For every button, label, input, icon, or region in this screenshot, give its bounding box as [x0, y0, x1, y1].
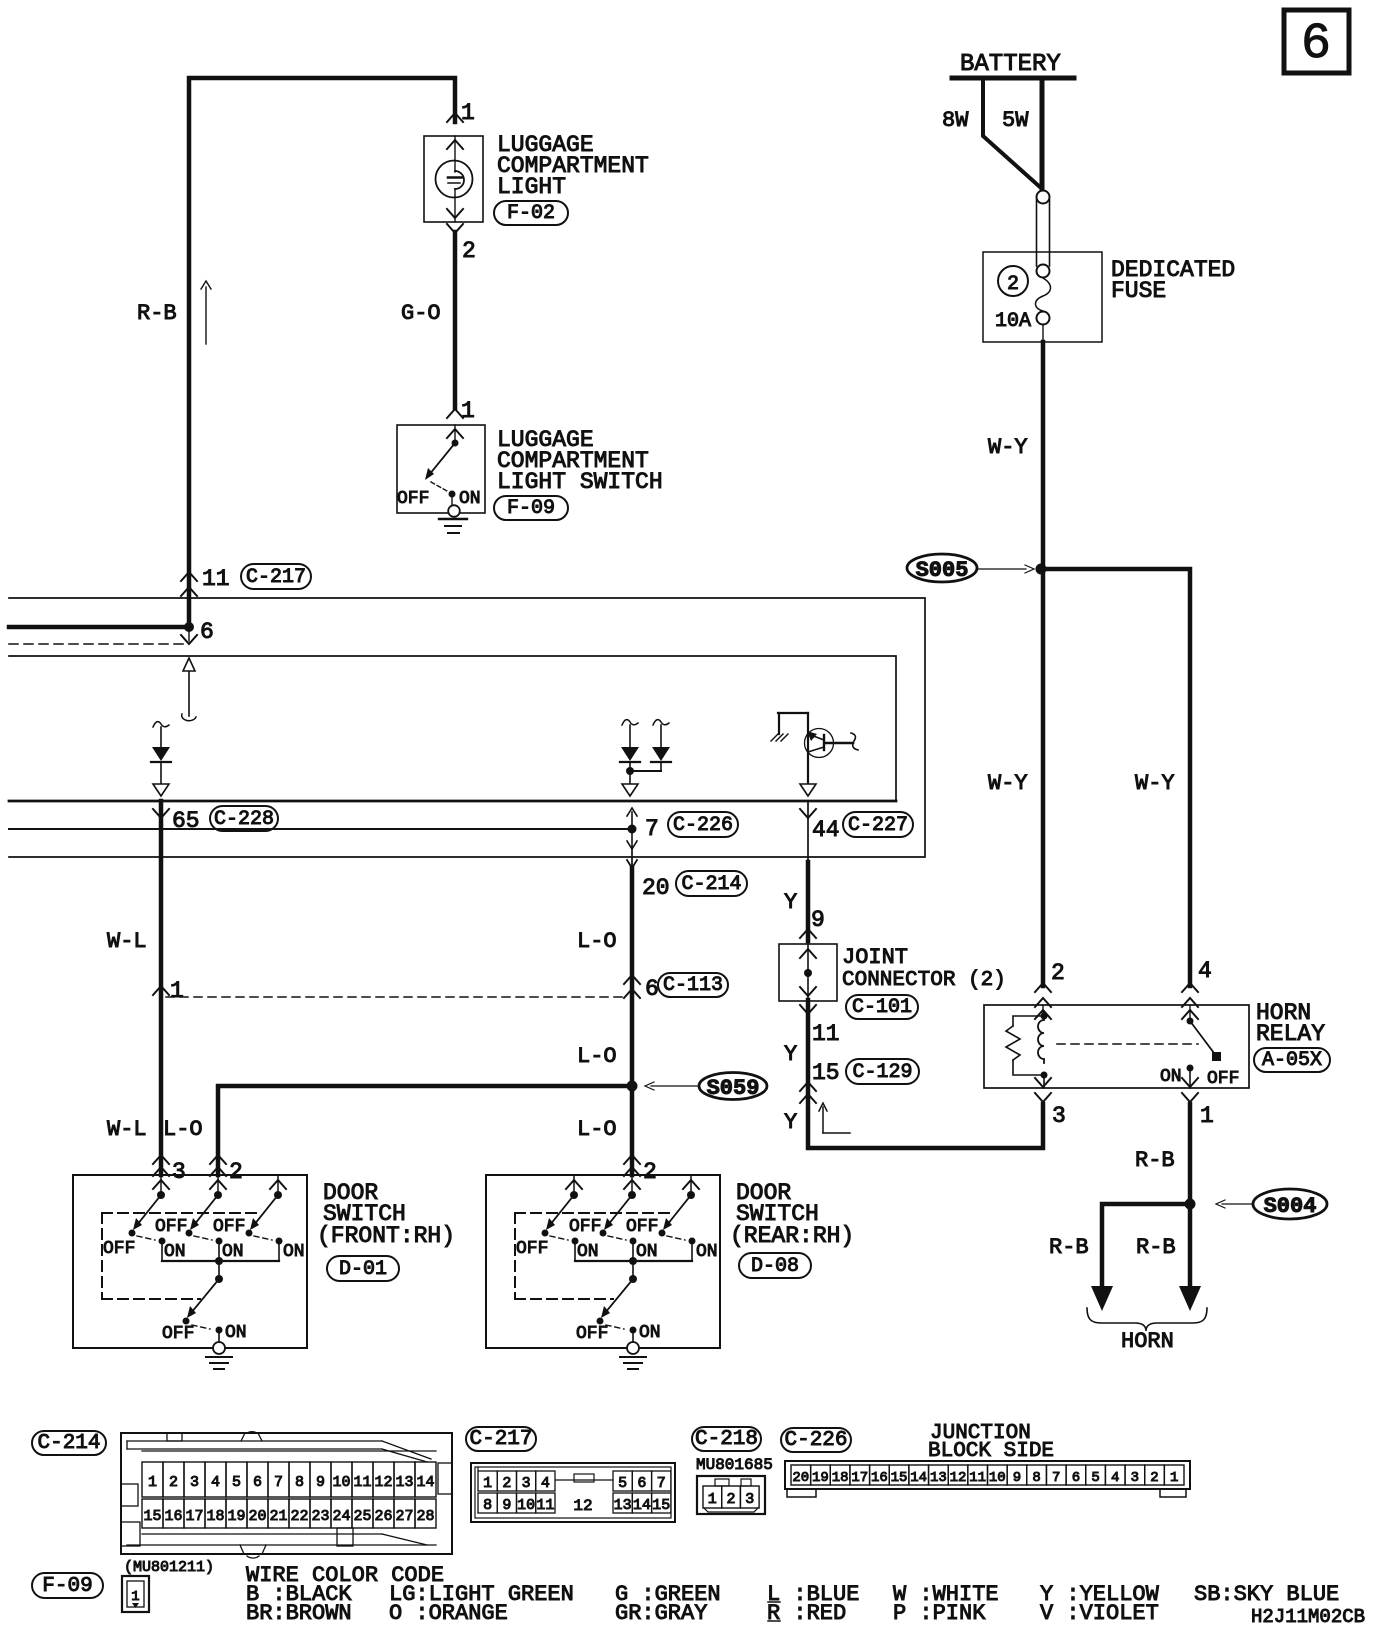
- pin 1 connector C-113 on W-L wire: [153, 978, 184, 1004]
- label HORN: [1121, 1329, 1174, 1354]
- svg-text:S005: S005: [916, 558, 969, 583]
- svg-text:27: 27: [395, 1508, 413, 1525]
- relay coil lower node: [1041, 1072, 1048, 1089]
- connector code C-217 bottom: [466, 1427, 536, 1451]
- door switch front dashed interlock box: [102, 1213, 258, 1299]
- connector code C-226 bottom: [781, 1428, 851, 1452]
- label 8W: [942, 108, 969, 133]
- svg-text:F-09: F-09: [42, 1575, 92, 1598]
- svg-text:OFF: OFF: [397, 489, 429, 509]
- door switch front lower OFF label: [162, 1324, 194, 1344]
- svg-text:3: 3: [1052, 1103, 1066, 1129]
- internal diode D2: [620, 720, 640, 771]
- svg-text:8: 8: [483, 1497, 492, 1514]
- svg-text:R-B: R-B: [137, 301, 177, 326]
- legend Y YELLOW: [1040, 1582, 1160, 1607]
- door switch rear box: [486, 1175, 720, 1348]
- svg-text:9: 9: [502, 1497, 511, 1514]
- door switch front lower dashed throw: [192, 1325, 210, 1329]
- label MU801685: [696, 1456, 773, 1474]
- svg-text:20: 20: [248, 1508, 266, 1525]
- svg-text:C-227: C-227: [848, 814, 908, 837]
- door switch rear lower movable arm: [597, 1279, 634, 1325]
- label W-L lower: [107, 1117, 147, 1142]
- door switch front OFF label pole a: [103, 1239, 135, 1259]
- svg-text:28: 28: [416, 1508, 434, 1525]
- svg-text:V :VIOLET: V :VIOLET: [1040, 1601, 1159, 1626]
- svg-text:15: 15: [143, 1508, 161, 1525]
- pin 11 connector C-217 into junction block: [181, 566, 230, 596]
- svg-text:W-Y: W-Y: [988, 435, 1028, 460]
- svg-text:6: 6: [645, 976, 659, 1002]
- chevron joint connector top inside: [800, 949, 816, 958]
- door switch front pole b dashed throw: [194, 1236, 212, 1240]
- svg-text:2: 2: [1150, 1470, 1158, 1486]
- wire R-B from luggage light to junction block pin 11: [189, 78, 455, 627]
- page continuation arrow symbol: [819, 1103, 850, 1133]
- svg-text:R-B: R-B: [1049, 1235, 1089, 1260]
- label R-B right: [1136, 1235, 1176, 1260]
- svg-text:D-01: D-01: [339, 1258, 387, 1281]
- wire W-Y to horn relay pin 2: [1041, 569, 1046, 986]
- wire W-Y branch to horn relay pin 4: [1039, 569, 1190, 986]
- door switch rear ON label pole c: [696, 1242, 718, 1262]
- door switch rear OFF label pole a: [516, 1239, 548, 1259]
- connector code A-05X: [1254, 1048, 1330, 1072]
- svg-text:10: 10: [332, 1474, 350, 1491]
- svg-text:1: 1: [148, 1474, 157, 1491]
- connector code C-226 inline: [668, 812, 738, 837]
- relay actuation dashed link: [1057, 1043, 1198, 1045]
- svg-text:G-O: G-O: [401, 301, 441, 326]
- label G-O: [401, 301, 441, 326]
- junction block outer box: [9, 598, 925, 857]
- svg-text:6: 6: [200, 619, 214, 645]
- door switch front common bus: [162, 1257, 279, 1283]
- svg-text:1: 1: [461, 100, 475, 126]
- door switch rear lower dashed throw: [606, 1325, 624, 1329]
- svg-text:Y: Y: [784, 1110, 797, 1135]
- pin 2 of front door switch: [210, 1155, 243, 1185]
- legend V VIOLET: [1040, 1601, 1159, 1626]
- svg-text:OFF: OFF: [103, 1239, 135, 1259]
- svg-text:14: 14: [910, 1470, 927, 1486]
- door switch front ground circle: [213, 1342, 225, 1354]
- wire G-O lamp to switch: [453, 232, 458, 408]
- fusible link: [1037, 191, 1050, 267]
- svg-text:OFF: OFF: [162, 1324, 194, 1344]
- svg-text:C-226: C-226: [673, 814, 733, 837]
- svg-text:3: 3: [172, 1159, 186, 1185]
- svg-text:15: 15: [652, 1497, 670, 1514]
- svg-text:23: 23: [311, 1508, 329, 1525]
- label 10A: [995, 310, 1031, 333]
- door switch rear ON label pole a: [577, 1242, 599, 1262]
- svg-text:W-L: W-L: [107, 929, 147, 954]
- wire R-B to horn right: [1188, 1204, 1193, 1288]
- svg-text:MU801685: MU801685: [696, 1456, 773, 1474]
- battery wire 5W: [1040, 78, 1045, 192]
- svg-text:ON: ON: [639, 1323, 661, 1343]
- svg-text:GR:GRAY: GR:GRAY: [615, 1601, 707, 1626]
- luggage compartment light F-02 box: [424, 136, 483, 222]
- wire Y relay pin3 to joint connector: [808, 1000, 1043, 1148]
- horn right arrowhead: [1179, 1286, 1201, 1311]
- svg-text:10A: 10A: [995, 310, 1031, 333]
- svg-text:11: 11: [969, 1470, 986, 1486]
- svg-text:10: 10: [517, 1497, 535, 1514]
- svg-text:OFF: OFF: [155, 1217, 187, 1237]
- svg-text:17: 17: [851, 1470, 868, 1486]
- svg-text:2: 2: [1007, 273, 1019, 296]
- label L-O lower: [577, 1117, 617, 1142]
- label W-Y right: [1135, 771, 1175, 796]
- door switch front OFF label pole b: [155, 1217, 187, 1237]
- svg-text:44: 44: [812, 817, 840, 843]
- connector C-226 pin face drawing: [785, 1461, 1190, 1497]
- relay coil upper node: [1041, 1013, 1048, 1020]
- door switch rear pole a movable arm: [542, 1195, 575, 1237]
- svg-text:8: 8: [295, 1474, 304, 1491]
- svg-text:C-214: C-214: [681, 873, 741, 896]
- door switch rear common bus: [575, 1257, 692, 1283]
- diode output arrow: [622, 771, 638, 796]
- splice S005: [907, 554, 1034, 583]
- svg-text:11: 11: [353, 1474, 371, 1491]
- wire R-B relay pin1 to S004: [1188, 1104, 1193, 1204]
- svg-text:W-Y: W-Y: [1135, 771, 1175, 796]
- svg-text:ON: ON: [164, 1242, 186, 1262]
- relay coil: [1038, 1016, 1044, 1063]
- svg-text:9: 9: [1013, 1470, 1021, 1486]
- label DOOR SWITCH REAR RH: [730, 1180, 854, 1249]
- door switch front box: [73, 1175, 307, 1348]
- label H2J11M02CB: [1251, 1606, 1365, 1628]
- svg-text:5W: 5W: [1002, 108, 1029, 133]
- ground circle of luggage switch: [448, 505, 460, 517]
- svg-text:L-O: L-O: [163, 1117, 203, 1142]
- door switch front pole c ON contact: [276, 1238, 283, 1262]
- svg-text:13: 13: [614, 1497, 632, 1514]
- svg-text:1: 1: [1200, 1103, 1214, 1129]
- label ON relay: [1160, 1067, 1182, 1087]
- connector C-214 pin face drawing: [121, 1432, 452, 1558]
- svg-text:22: 22: [290, 1508, 308, 1525]
- svg-text:ON: ON: [696, 1242, 718, 1262]
- connector code D-08: [739, 1253, 811, 1278]
- svg-text:4: 4: [541, 1475, 550, 1492]
- connector code F-02: [494, 201, 568, 225]
- connector C-218 pin face drawing: [697, 1476, 765, 1514]
- svg-text:5: 5: [618, 1475, 627, 1492]
- svg-text:14: 14: [416, 1474, 434, 1491]
- svg-text:19: 19: [812, 1470, 829, 1486]
- door switch front lower movable arm: [183, 1279, 220, 1325]
- internal switch arrow symbol: [182, 658, 196, 721]
- svg-text:R-B: R-B: [1136, 1235, 1176, 1260]
- label JOINT CONNECTOR (2): [842, 945, 1006, 992]
- door switch rear pole c dashed throw: [667, 1236, 685, 1240]
- connector code C-218 bottom: [692, 1427, 761, 1451]
- svg-text:5: 5: [232, 1474, 241, 1491]
- chevron relay pin 2 inside: [1035, 1005, 1051, 1019]
- svg-text:8W: 8W: [942, 108, 969, 133]
- diode junction node: [626, 767, 661, 775]
- svg-text:Y: Y: [784, 890, 797, 915]
- door switch front ON label pole c: [283, 1242, 305, 1262]
- legend R RED: [767, 1601, 846, 1626]
- pin 4 of horn relay: [1182, 958, 1212, 1007]
- door switch rear pole b ON contact: [630, 1238, 637, 1262]
- battery: [952, 51, 1074, 78]
- internal bus to node 7: [9, 828, 632, 830]
- label JUNCTION BLOCK SIDE: [928, 1422, 1054, 1463]
- svg-text:12: 12: [374, 1474, 392, 1491]
- svg-text:F-09: F-09: [507, 497, 555, 520]
- svg-text:RELAY: RELAY: [1256, 1021, 1325, 1047]
- svg-text:12: 12: [950, 1470, 967, 1486]
- svg-text:C-228: C-228: [214, 808, 274, 831]
- svg-text:2: 2: [643, 1159, 657, 1185]
- svg-text:D-08: D-08: [751, 1255, 799, 1278]
- switch dashed throw to ON: [431, 482, 447, 491]
- svg-text:FUSE: FUSE: [1111, 278, 1166, 304]
- svg-text:15: 15: [812, 1060, 840, 1086]
- svg-text:6: 6: [1072, 1470, 1080, 1486]
- door switch rear pole c pin lead: [683, 1175, 699, 1199]
- pin 3 of horn relay: [1035, 1078, 1066, 1129]
- svg-text:20: 20: [642, 875, 670, 901]
- door switch front ground symbol: [206, 1357, 232, 1369]
- svg-text:7: 7: [657, 1475, 666, 1492]
- svg-text:26: 26: [374, 1508, 392, 1525]
- svg-text:(FRONT:RH): (FRONT:RH): [317, 1223, 455, 1249]
- door switch rear ground circle: [627, 1342, 639, 1354]
- label 5W: [1002, 108, 1029, 133]
- svg-text:BR:BROWN: BR:BROWN: [246, 1601, 352, 1626]
- internal transistor Q1: [771, 713, 858, 784]
- fuse terminals and element: [1036, 265, 1051, 343]
- svg-text:P :PINK: P :PINK: [893, 1601, 986, 1626]
- label MU801211: [124, 1559, 214, 1576]
- svg-text:C-226: C-226: [784, 1429, 847, 1452]
- legend BR BROWN: [246, 1601, 352, 1626]
- svg-text:11: 11: [536, 1497, 554, 1514]
- label W-L upper: [107, 929, 147, 954]
- svg-text:2: 2: [502, 1475, 511, 1492]
- label DEDICATED FUSE: [1111, 257, 1235, 304]
- joint connector C-101 box: [779, 944, 837, 1001]
- dashed internal bus: [9, 643, 183, 645]
- svg-text:19: 19: [227, 1508, 245, 1525]
- luggage compartment light switch F-09 box: [397, 425, 485, 513]
- door switch rear pole c movable arm: [659, 1195, 692, 1237]
- svg-text:JOINT: JOINT: [842, 945, 908, 970]
- svg-text:2: 2: [1051, 960, 1065, 986]
- svg-text:F-02: F-02: [507, 202, 555, 225]
- label W-Y left: [988, 771, 1028, 796]
- svg-text:ON: ON: [577, 1242, 599, 1262]
- svg-text:BATTERY: BATTERY: [960, 51, 1061, 78]
- splice S059: [645, 1073, 767, 1102]
- svg-text:ON: ON: [1160, 1067, 1182, 1087]
- junction dot S004: [1185, 1199, 1196, 1210]
- svg-text:16: 16: [164, 1508, 182, 1525]
- door switch rear pole b dashed throw: [608, 1236, 626, 1240]
- svg-text:9: 9: [316, 1474, 325, 1491]
- connector code C-214 inline: [676, 871, 747, 896]
- svg-text:S059: S059: [707, 1076, 760, 1101]
- svg-text:14: 14: [633, 1497, 651, 1514]
- pin 1 of luggage compartment light switch: [447, 398, 475, 424]
- door switch rear lower ON label: [639, 1323, 661, 1343]
- svg-text:C-129: C-129: [852, 1061, 912, 1084]
- label L-O middle: [577, 1044, 617, 1069]
- svg-text:C-217: C-217: [469, 1428, 532, 1451]
- svg-text:L-O: L-O: [577, 1044, 617, 1069]
- door switch rear ON label pole b: [636, 1242, 658, 1262]
- label R-B upper: [1135, 1148, 1175, 1173]
- svg-text:W-Y: W-Y: [988, 771, 1028, 796]
- svg-text:9: 9: [811, 907, 825, 933]
- svg-text:12: 12: [573, 1497, 592, 1515]
- connector code C-228: [210, 806, 278, 831]
- connector code C-214 bottom: [32, 1431, 106, 1455]
- legend GR GRAY: [615, 1601, 707, 1626]
- door switch front pole a dashed throw: [137, 1236, 155, 1240]
- svg-text:18: 18: [206, 1508, 224, 1525]
- connector code C-217 top: [241, 564, 311, 589]
- svg-text:R :RED: R :RED: [767, 1601, 846, 1626]
- door switch rear lower OFF label: [576, 1324, 608, 1344]
- horn brace: [1087, 1308, 1207, 1331]
- wire node 6 bus inside junction block: [9, 625, 189, 630]
- svg-text:H2J11M02CB: H2J11M02CB: [1251, 1606, 1365, 1628]
- svg-text:17: 17: [185, 1508, 203, 1525]
- svg-text:3: 3: [190, 1474, 199, 1491]
- svg-text:C-101: C-101: [852, 996, 912, 1019]
- label HORN RELAY: [1256, 1000, 1325, 1047]
- svg-text:C-214: C-214: [37, 1432, 100, 1455]
- svg-text:(MU801211): (MU801211): [124, 1559, 214, 1576]
- door switch rear pole a pin lead: [566, 1175, 582, 1199]
- svg-text:18: 18: [832, 1470, 849, 1486]
- door switch rear ground symbol: [620, 1357, 646, 1369]
- node 7 arrow up: [627, 808, 637, 829]
- relay switch armature: [1190, 1021, 1221, 1061]
- switch pivot contact: [452, 440, 459, 447]
- svg-text:CONNECTOR (2): CONNECTOR (2): [842, 969, 1006, 992]
- door switch front pole a ON contact: [159, 1238, 166, 1262]
- svg-text:65: 65: [172, 808, 200, 834]
- svg-text:ON: ON: [222, 1242, 244, 1262]
- connector chevron lamp box bottom: [447, 197, 463, 222]
- svg-text:1: 1: [170, 978, 184, 1004]
- lamp bulb symbol: [436, 161, 473, 198]
- svg-text:4: 4: [1198, 958, 1212, 984]
- svg-text:7: 7: [274, 1474, 283, 1491]
- connector code C-113: [658, 973, 728, 997]
- svg-text:13: 13: [395, 1474, 413, 1491]
- label OFF relay: [1207, 1069, 1239, 1089]
- svg-text:1: 1: [483, 1475, 492, 1492]
- pin 15 connector C-129: [800, 1060, 840, 1103]
- battery wire 8W: [983, 80, 1040, 187]
- svg-text:15: 15: [891, 1470, 908, 1486]
- legend G GREEN: [615, 1582, 721, 1607]
- svg-text:ON: ON: [225, 1323, 247, 1343]
- svg-text:1: 1: [131, 1589, 139, 1605]
- connector chevron inside switch box: [447, 425, 463, 441]
- legend P PINK: [893, 1601, 986, 1626]
- svg-text:13: 13: [930, 1470, 947, 1486]
- pin 11 label joint connector: [812, 1021, 840, 1047]
- svg-text:2: 2: [462, 238, 476, 264]
- label LUGGAGE COMPARTMENT LIGHT: [497, 132, 649, 200]
- door switch front lower ON label: [225, 1323, 247, 1343]
- switch ON contact: [449, 489, 481, 509]
- legend W WHITE: [893, 1582, 999, 1607]
- svg-text:7: 7: [1052, 1470, 1060, 1486]
- svg-text:16: 16: [871, 1470, 888, 1486]
- connector code C-129: [846, 1059, 919, 1084]
- svg-text:ON: ON: [459, 489, 481, 509]
- connector F-09 pin face drawing: [122, 1576, 149, 1612]
- door switch rear pole b movable arm: [600, 1195, 633, 1237]
- wire L-O S059 to front door switch: [218, 1086, 632, 1175]
- horn relay A-05X box: [984, 1005, 1249, 1088]
- label DOOR SWITCH FRONT RH: [317, 1180, 455, 1249]
- svg-text:OFF: OFF: [516, 1239, 548, 1259]
- svg-text:4: 4: [1111, 1470, 1119, 1486]
- wire W-L from junction block pin 65: [159, 801, 164, 1175]
- door switch front lower ON contact: [216, 1327, 223, 1343]
- svg-text:2: 2: [229, 1159, 243, 1185]
- arrow R-B flow direction: [201, 281, 211, 344]
- svg-text:C-217: C-217: [246, 566, 306, 589]
- svg-text:25: 25: [353, 1508, 371, 1525]
- junction block inner box: [9, 656, 896, 801]
- relay ON contact: [1187, 1065, 1194, 1089]
- svg-text:3: 3: [745, 1491, 754, 1508]
- legend B BLACK: [246, 1582, 352, 1607]
- svg-text:L-O: L-O: [577, 929, 617, 954]
- svg-text:C-218: C-218: [695, 1428, 758, 1451]
- chevron joint connector bottom: [800, 987, 816, 1014]
- door switch front pole c pin lead: [270, 1175, 286, 1199]
- svg-text:8: 8: [1032, 1470, 1040, 1486]
- pin 1 of luggage compartment light: [447, 100, 475, 126]
- svg-text:ON: ON: [636, 1242, 658, 1262]
- svg-text:C-113: C-113: [663, 974, 723, 997]
- node 7 junction: [628, 825, 637, 834]
- connector code D-01: [327, 1256, 399, 1281]
- svg-text:SB:SKY BLUE: SB:SKY BLUE: [1194, 1582, 1339, 1607]
- legend O ORANGE: [389, 1601, 508, 1626]
- label Y above joint connector: [784, 890, 797, 915]
- svg-text:LIGHT: LIGHT: [497, 174, 566, 200]
- door switch rear lower ON contact: [630, 1327, 637, 1343]
- joint connector internal node: [804, 944, 812, 1001]
- internal diode D3: [651, 720, 671, 771]
- svg-text:OFF: OFF: [576, 1324, 608, 1344]
- label L-O at front switch: [163, 1117, 203, 1142]
- pin 44 connector C-227: [800, 809, 840, 843]
- legend LG LIGHT GREEN: [389, 1582, 574, 1607]
- svg-text:11: 11: [202, 566, 230, 592]
- door switch front pole c movable arm: [246, 1195, 279, 1237]
- svg-text:6: 6: [253, 1474, 262, 1491]
